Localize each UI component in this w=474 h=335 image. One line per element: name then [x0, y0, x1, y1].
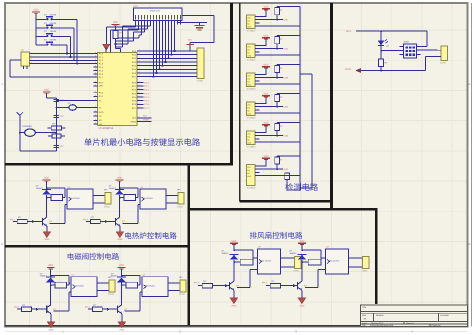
- svg-text:1N4007: 1N4007: [222, 252, 230, 255]
- wire detect unit 6 pin1: [260, 165, 267, 167]
- capacitor C1: [54, 99, 60, 101]
- resistor R pullup detect 5: [275, 124, 280, 131]
- wire detect unit 4 pin2: [260, 106, 278, 108]
- relay coil box: [55, 282, 67, 288]
- wire opto lower-left fan: [318, 269, 325, 271]
- button S4: [44, 44, 47, 46]
- svg-text:SRD-12VDC: SRD-12VDC: [328, 260, 340, 263]
- svg-text:VCC: VCC: [188, 39, 193, 42]
- wire key S2 left: [36, 27, 44, 29]
- wire P0.0 bus row: [137, 50, 193, 52]
- resistor R fan base: [270, 284, 280, 288]
- pin display 8: [156, 21, 158, 25]
- svg-text:VCC: VCC: [263, 34, 268, 37]
- ground subckt: [43, 232, 50, 238]
- svg-text:DQ6: DQ6: [284, 168, 289, 171]
- svg-text:CON2: CON2: [361, 270, 368, 273]
- wire coil to opto fan: [321, 257, 326, 259]
- svg-text:P?.?: P?.?: [10, 218, 15, 221]
- wire coil to opto: [137, 195, 138, 196]
- IC U2 watch chip: [21, 52, 30, 66]
- svg-text:P2.1: P2.1: [144, 85, 149, 88]
- wire display seg 14 drop: [174, 25, 176, 52]
- wire mcu bottom-left stubs: [94, 119, 98, 121]
- pin mcu left P1.7: [94, 76, 98, 78]
- relay K1: [404, 44, 417, 58]
- relay coil box: [124, 195, 136, 201]
- svg-text:JDQ?: JDQ?: [404, 41, 410, 44]
- svg-text:RST: RST: [99, 81, 104, 84]
- pin mcu left T0: [94, 115, 98, 117]
- svg-text:2: 2: [139, 67, 140, 70]
- diode D flyback: [117, 276, 126, 278]
- pin mcu left VPD: [94, 85, 98, 87]
- wire display seg 8 drop: [156, 25, 158, 73]
- pin mcu right P0.0: [137, 50, 141, 52]
- svg-text:WR: WR: [99, 123, 103, 126]
- svg-text:DS18B20: DS18B20: [247, 146, 256, 149]
- wire emitter to ground fan: [233, 290, 235, 298]
- ground subckt: [47, 322, 54, 328]
- svg-text:4SEG-LED: 4SEG-LED: [150, 10, 161, 13]
- wire coil to opto: [68, 283, 69, 284]
- svg-text:9: 9: [95, 75, 96, 78]
- svg-text:2: 2: [139, 52, 140, 55]
- ground fan subckt: [230, 298, 237, 304]
- mcu top pin stubs: [105, 48, 107, 53]
- svg-text:1N4007: 1N4007: [36, 187, 44, 190]
- svg-text:P2.6: P2.6: [144, 103, 149, 106]
- diode D flyback: [46, 276, 55, 278]
- pin mcu left P1.0: [94, 53, 98, 55]
- wire pullup node: [115, 39, 117, 49]
- wire detect unit 5 pin2: [260, 135, 278, 137]
- svg-text:File:: File:: [362, 324, 366, 327]
- resistor R pullup detect 3: [275, 66, 280, 73]
- wire emitter to ground: [46, 226, 48, 232]
- svg-text:P?.?: P?.?: [262, 281, 267, 284]
- svg-text:DS18B20: DS18B20: [247, 30, 256, 33]
- wire display seg 10 drop: [162, 25, 164, 66]
- svg-text:P?.?: P?.?: [83, 218, 88, 221]
- pin mcu left P3.1: [94, 95, 98, 97]
- sensor U6 detect unit: [246, 102, 255, 116]
- sensor U7 detect unit: [246, 131, 255, 145]
- connector CON2 fan output: [362, 256, 369, 268]
- wire collector: [121, 285, 123, 305]
- wire emitter to ground: [121, 314, 123, 322]
- svg-text:DQ5: DQ5: [284, 135, 289, 138]
- resistor R pullup detect 6: [275, 157, 280, 164]
- relay coil box fan: [240, 259, 253, 265]
- block border: MCU block bottom edge: [5, 163, 233, 166]
- svg-text:CON2: CON2: [108, 293, 115, 296]
- wire top loop: [47, 187, 66, 189]
- wire detect unit 3 pin4: [260, 83, 301, 85]
- wire display data 6 staircase: [150, 25, 152, 27]
- pin JP1 3: [193, 57, 197, 59]
- wire opto lower-left fan: [250, 269, 257, 271]
- svg-text:9: 9: [95, 65, 96, 68]
- resistor R1 pullup: [113, 31, 118, 39]
- button S3: [44, 35, 47, 37]
- pin JP1 7: [193, 72, 197, 74]
- wire display pin2 to MCU top: [138, 25, 140, 31]
- svg-text:DS18B20: DS18B20: [247, 117, 256, 120]
- svg-text:GND: GND: [247, 25, 252, 28]
- svg-text:GND: GND: [247, 83, 252, 86]
- sheet outer border right margin: [471, 3, 473, 327]
- svg-text:VPD: VPD: [99, 85, 104, 88]
- svg-text:GND: GND: [44, 238, 49, 241]
- svg-text:2: 2: [139, 63, 140, 66]
- pin mcu right P0.2: [137, 57, 141, 59]
- wire display data 3 staircase: [141, 25, 143, 36]
- svg-text:1N4007: 1N4007: [40, 275, 48, 278]
- sensor U5 detect unit: [246, 73, 255, 87]
- pin mcu right P0.1: [137, 54, 141, 56]
- wire display pin1 to ground: [135, 25, 137, 28]
- svg-text:VCC: VCC: [263, 5, 268, 8]
- pin display 11: [165, 21, 167, 25]
- pin mcu right P2.5: [137, 100, 141, 102]
- junction fan base: [293, 284, 296, 287]
- wire detect unit 2 pin2: [260, 48, 278, 50]
- block border: heater block bottom edge: [5, 245, 189, 248]
- pin IC left: [10, 59, 21, 61]
- wire key row 1 IC to MCU: [30, 53, 98, 55]
- svg-text:VCC: VCC: [231, 240, 236, 243]
- wire detect bus: [299, 7, 301, 191]
- ground subckt: [116, 232, 123, 238]
- svg-text:3: 3: [31, 58, 32, 61]
- svg-text:9: 9: [95, 110, 96, 113]
- svg-text:GND: GND: [247, 54, 252, 57]
- pin display 15: [177, 21, 179, 25]
- svg-text:4: 4: [31, 61, 32, 64]
- relay coil box: [126, 282, 138, 288]
- wire opto lower-left to emitter: [69, 291, 71, 293]
- pin JP1 8: [193, 76, 197, 78]
- wire collector: [50, 285, 52, 305]
- wire display seg 9 drop: [159, 25, 161, 70]
- wire emitter to ground: [50, 314, 52, 322]
- svg-text:DQ3: DQ3: [284, 77, 289, 80]
- wire display seg 12 drop: [168, 25, 170, 59]
- relay coil box fan: [308, 259, 321, 265]
- pin mcu right P0.5: [137, 68, 141, 70]
- svg-text:VCC: VCC: [44, 89, 49, 92]
- wire top loop: [51, 275, 70, 277]
- transistor Q fan npn: [229, 282, 231, 290]
- transistor Q fan npn: [297, 282, 299, 290]
- wire detect unit 5 pin4: [260, 141, 301, 143]
- wire collector fan: [233, 262, 235, 281]
- opto U box: [71, 277, 97, 297]
- pin mcu left X1: [94, 107, 98, 109]
- pin display 16: [180, 21, 182, 25]
- diode D flyback: [115, 188, 124, 190]
- wire key S1 to column: [55, 19, 77, 21]
- svg-text:9: 9: [95, 51, 96, 54]
- svg-text:P2.3: P2.3: [144, 92, 149, 95]
- wire display seg 11 drop: [165, 25, 167, 62]
- svg-text:2: 2: [139, 59, 140, 62]
- label block1: [84, 138, 200, 146]
- svg-text:9: 9: [95, 68, 96, 71]
- svg-text:SW-PB: SW-PB: [50, 30, 57, 33]
- pin mcu right P2.7: [137, 107, 141, 109]
- wire display pin16 loop right: [182, 14, 214, 16]
- svg-text:CON2: CON2: [177, 205, 184, 208]
- wire detect unit 2 pin4: [260, 54, 301, 56]
- wire display data 4 staircase: [144, 25, 146, 33]
- svg-text:9: 9: [95, 114, 96, 117]
- block border: detect block bottom edge: [240, 200, 333, 202]
- wire display data 5 staircase: [147, 25, 149, 30]
- label block4: [285, 183, 318, 191]
- wire P0.1 bus row: [137, 54, 193, 56]
- resistor R pullup detect 1: [275, 8, 280, 15]
- svg-text:A: A: [468, 82, 470, 86]
- opto U box: [140, 189, 166, 209]
- label block3: [68, 253, 119, 260]
- wire opto lower-left to emitter: [140, 291, 142, 293]
- LED D indicator: [380, 31, 382, 41]
- svg-text:2: 2: [31, 54, 32, 57]
- resistor R base: [90, 220, 100, 224]
- wire P0.7 bus row: [137, 76, 193, 78]
- pin display 7: [153, 21, 155, 25]
- wire detect pullup rail 5: [276, 123, 278, 124]
- pin mcu right P2.6: [137, 103, 141, 105]
- pin display 14: [174, 21, 176, 25]
- wire coil to opto fan: [253, 257, 258, 259]
- pin display 1: [135, 21, 137, 25]
- capacitor C3: [54, 144, 60, 146]
- transistor Q npn: [117, 305, 119, 313]
- ground display common: [103, 44, 110, 50]
- svg-text:GND: GND: [247, 112, 252, 115]
- wire display seg 13 drop: [171, 25, 173, 55]
- wire VCC key rail vertical: [35, 13, 37, 45]
- connector JP1 8pin: [197, 48, 204, 79]
- pin JP1 2: [193, 54, 197, 56]
- wire opto outputs: [97, 282, 109, 284]
- svg-text:GND: GND: [49, 328, 54, 331]
- pin mcu right ALE: [137, 117, 141, 119]
- pin mcu left INT0: [94, 111, 98, 113]
- pin mcu left RD: [94, 119, 98, 121]
- pin mcu right P2.3: [137, 92, 141, 94]
- svg-text:DS18B20: DS18B20: [247, 187, 256, 190]
- pin mcu right P2.2: [137, 89, 141, 91]
- wire collector: [46, 198, 48, 218]
- pin mcu right P2.1: [137, 85, 141, 87]
- svg-text:2: 2: [139, 56, 140, 59]
- svg-text:VCC: VCC: [263, 63, 268, 66]
- resistor R pullup detect 2: [275, 37, 280, 44]
- svg-text:PSEN: PSEN: [131, 120, 137, 123]
- resistor R pullup detect 4: [275, 95, 280, 102]
- svg-text:RD: RD: [99, 119, 103, 122]
- wires P2 net stubs: [137, 81, 144, 83]
- pin display 13: [171, 21, 173, 25]
- pin JP1 4: [193, 61, 197, 63]
- svg-text:9: 9: [95, 94, 96, 97]
- wire collector fan: [301, 262, 303, 281]
- svg-text:P?.?: P?.?: [85, 306, 90, 309]
- wire key S3 to column: [55, 35, 70, 37]
- speaker LS1: [25, 129, 36, 136]
- pin JP1 5: [193, 65, 197, 67]
- transistor Q npn: [42, 218, 44, 226]
- wire collector: [119, 198, 121, 218]
- wire detect unit 1 pin2: [260, 19, 278, 21]
- wire coil to opto: [64, 195, 65, 196]
- pin display 4: [144, 21, 146, 25]
- pin mcu left P1.4: [94, 66, 98, 68]
- svg-text:SRD-12VDC: SRD-12VDC: [260, 260, 272, 263]
- svg-text:ALE: ALE: [143, 115, 148, 118]
- wire key S4 to column: [55, 44, 67, 46]
- svg-text:GND: GND: [247, 175, 252, 178]
- svg-text:GND: GND: [117, 238, 122, 241]
- svg-text:DQ4: DQ4: [284, 106, 289, 109]
- wire P0.4 bus row: [137, 65, 193, 67]
- wire emitter to ground fan: [301, 290, 303, 298]
- ground display right: [195, 25, 205, 27]
- opto U box: [67, 189, 93, 209]
- wire key row 3 IC to MCU: [30, 59, 98, 61]
- wire PSEN stub: [137, 120, 152, 122]
- svg-text:1: 1: [31, 51, 32, 54]
- svg-text:VCC: VCC: [263, 92, 268, 95]
- wire detect unit 4 pin4: [260, 112, 301, 114]
- resistor R current limit: [379, 59, 384, 67]
- wire AC bottom: [361, 70, 426, 72]
- svg-text:Sheet of: Sheet of: [406, 322, 414, 325]
- relay coil box: [51, 195, 63, 201]
- resistor R3 reset: [52, 134, 61, 138]
- wire opto outputs fan: [281, 257, 295, 259]
- svg-text:GND: GND: [119, 328, 124, 331]
- ground fan subckt: [298, 298, 305, 304]
- svg-text:DQ1: DQ1: [284, 19, 289, 22]
- wire detect unit 1 pin1: [260, 15, 267, 17]
- block border: MCU block right edge: [230, 3, 233, 165]
- block border: detect block left edge: [239, 3, 241, 201]
- svg-text:2: 2: [139, 74, 140, 77]
- svg-text:U? AT89C51: U? AT89C51: [99, 127, 114, 130]
- pin mcu right PSEN: [137, 120, 141, 122]
- block border: bottom edge shading: [5, 325, 376, 327]
- svg-text:MOC3041: MOC3041: [71, 197, 81, 200]
- wire opto outputs: [166, 195, 178, 197]
- svg-text:B: B: [1, 242, 3, 246]
- transistor Q npn: [115, 218, 117, 226]
- svg-text:CON2: CON2: [179, 293, 186, 296]
- svg-text:VCC: VCC: [48, 264, 53, 267]
- power VCC connector JP1: [187, 44, 194, 46]
- label block5: [250, 232, 303, 239]
- svg-text:VCC: VCC: [263, 155, 268, 158]
- pin mcu right P0.7: [137, 76, 141, 78]
- pin display 5: [147, 21, 149, 25]
- pin display 9: [159, 21, 161, 25]
- svg-text:VCC: VCC: [113, 21, 118, 24]
- pin mcu right P0.6: [137, 72, 141, 74]
- wire key S1 left: [36, 19, 44, 21]
- connector CON2 output: [178, 193, 184, 205]
- wire speaker row: [20, 132, 25, 134]
- pin mcu right P0.3: [137, 61, 141, 63]
- svg-text:9: 9: [95, 83, 96, 86]
- transistor Q npn: [46, 305, 48, 313]
- wire xtal row 1: [56, 100, 97, 102]
- svg-text:D:\Design\MyDesign.ddb: D:\Design\MyDesign.ddb: [370, 324, 394, 327]
- wire key row 2 IC to MCU: [30, 56, 98, 58]
- svg-text:DQ2: DQ2: [284, 48, 289, 51]
- wire P0.3 bus row: [137, 61, 193, 63]
- svg-text:CON2: CON2: [440, 62, 447, 65]
- pin mcu left RST: [94, 81, 98, 83]
- svg-text:P2.0: P2.0: [144, 81, 149, 84]
- pin display 2: [138, 21, 140, 25]
- pin display 3: [141, 21, 143, 25]
- pin mcu left P1.5: [94, 70, 98, 72]
- junction base: [107, 308, 110, 311]
- opto U box fan: [258, 249, 281, 274]
- wire detect unit 5 pin1: [260, 131, 267, 133]
- wire bottom row block1: [20, 150, 57, 152]
- pin display 10: [162, 21, 164, 25]
- resistor R2 reset: [51, 126, 61, 130]
- svg-text:VCC: VCC: [119, 264, 124, 267]
- wire P0.5 bus row: [137, 68, 193, 70]
- svg-text:MOC3041: MOC3041: [75, 285, 85, 288]
- wire detect pullup rail 6: [276, 156, 278, 157]
- wire reset column: [55, 98, 57, 151]
- svg-text:ALE: ALE: [132, 117, 137, 120]
- svg-text:CON2: CON2: [104, 205, 111, 208]
- junction fan base: [225, 284, 228, 287]
- wire AC top: [356, 30, 427, 32]
- junction base: [36, 308, 39, 311]
- block border: fan block right edge: [375, 209, 378, 304]
- pin mcu right P2.0: [137, 81, 141, 83]
- wire speaker column: [19, 118, 21, 151]
- svg-text:SW-PB: SW-PB: [50, 13, 57, 16]
- opto U box fan: [326, 249, 349, 274]
- wire detect unit 6 pin2: [260, 168, 278, 170]
- wire top loop fan: [234, 249, 253, 251]
- wire IC left loop: [9, 60, 11, 77]
- svg-text:1N4007: 1N4007: [290, 252, 298, 255]
- svg-text:SW-PB: SW-PB: [50, 39, 57, 42]
- diode D fan flyback: [298, 253, 307, 255]
- resistor R base: [21, 307, 31, 311]
- wire opto outputs: [168, 282, 180, 284]
- svg-text:AC-N: AC-N: [345, 68, 351, 71]
- title block: [361, 305, 468, 327]
- pin mcu left P3.0: [94, 92, 98, 94]
- capacitor C2: [54, 115, 60, 117]
- svg-text:GND: GND: [247, 141, 252, 144]
- svg-text:9: 9: [95, 58, 96, 61]
- wire top loop: [122, 275, 141, 277]
- wire detect unit 3 pin1: [260, 73, 267, 75]
